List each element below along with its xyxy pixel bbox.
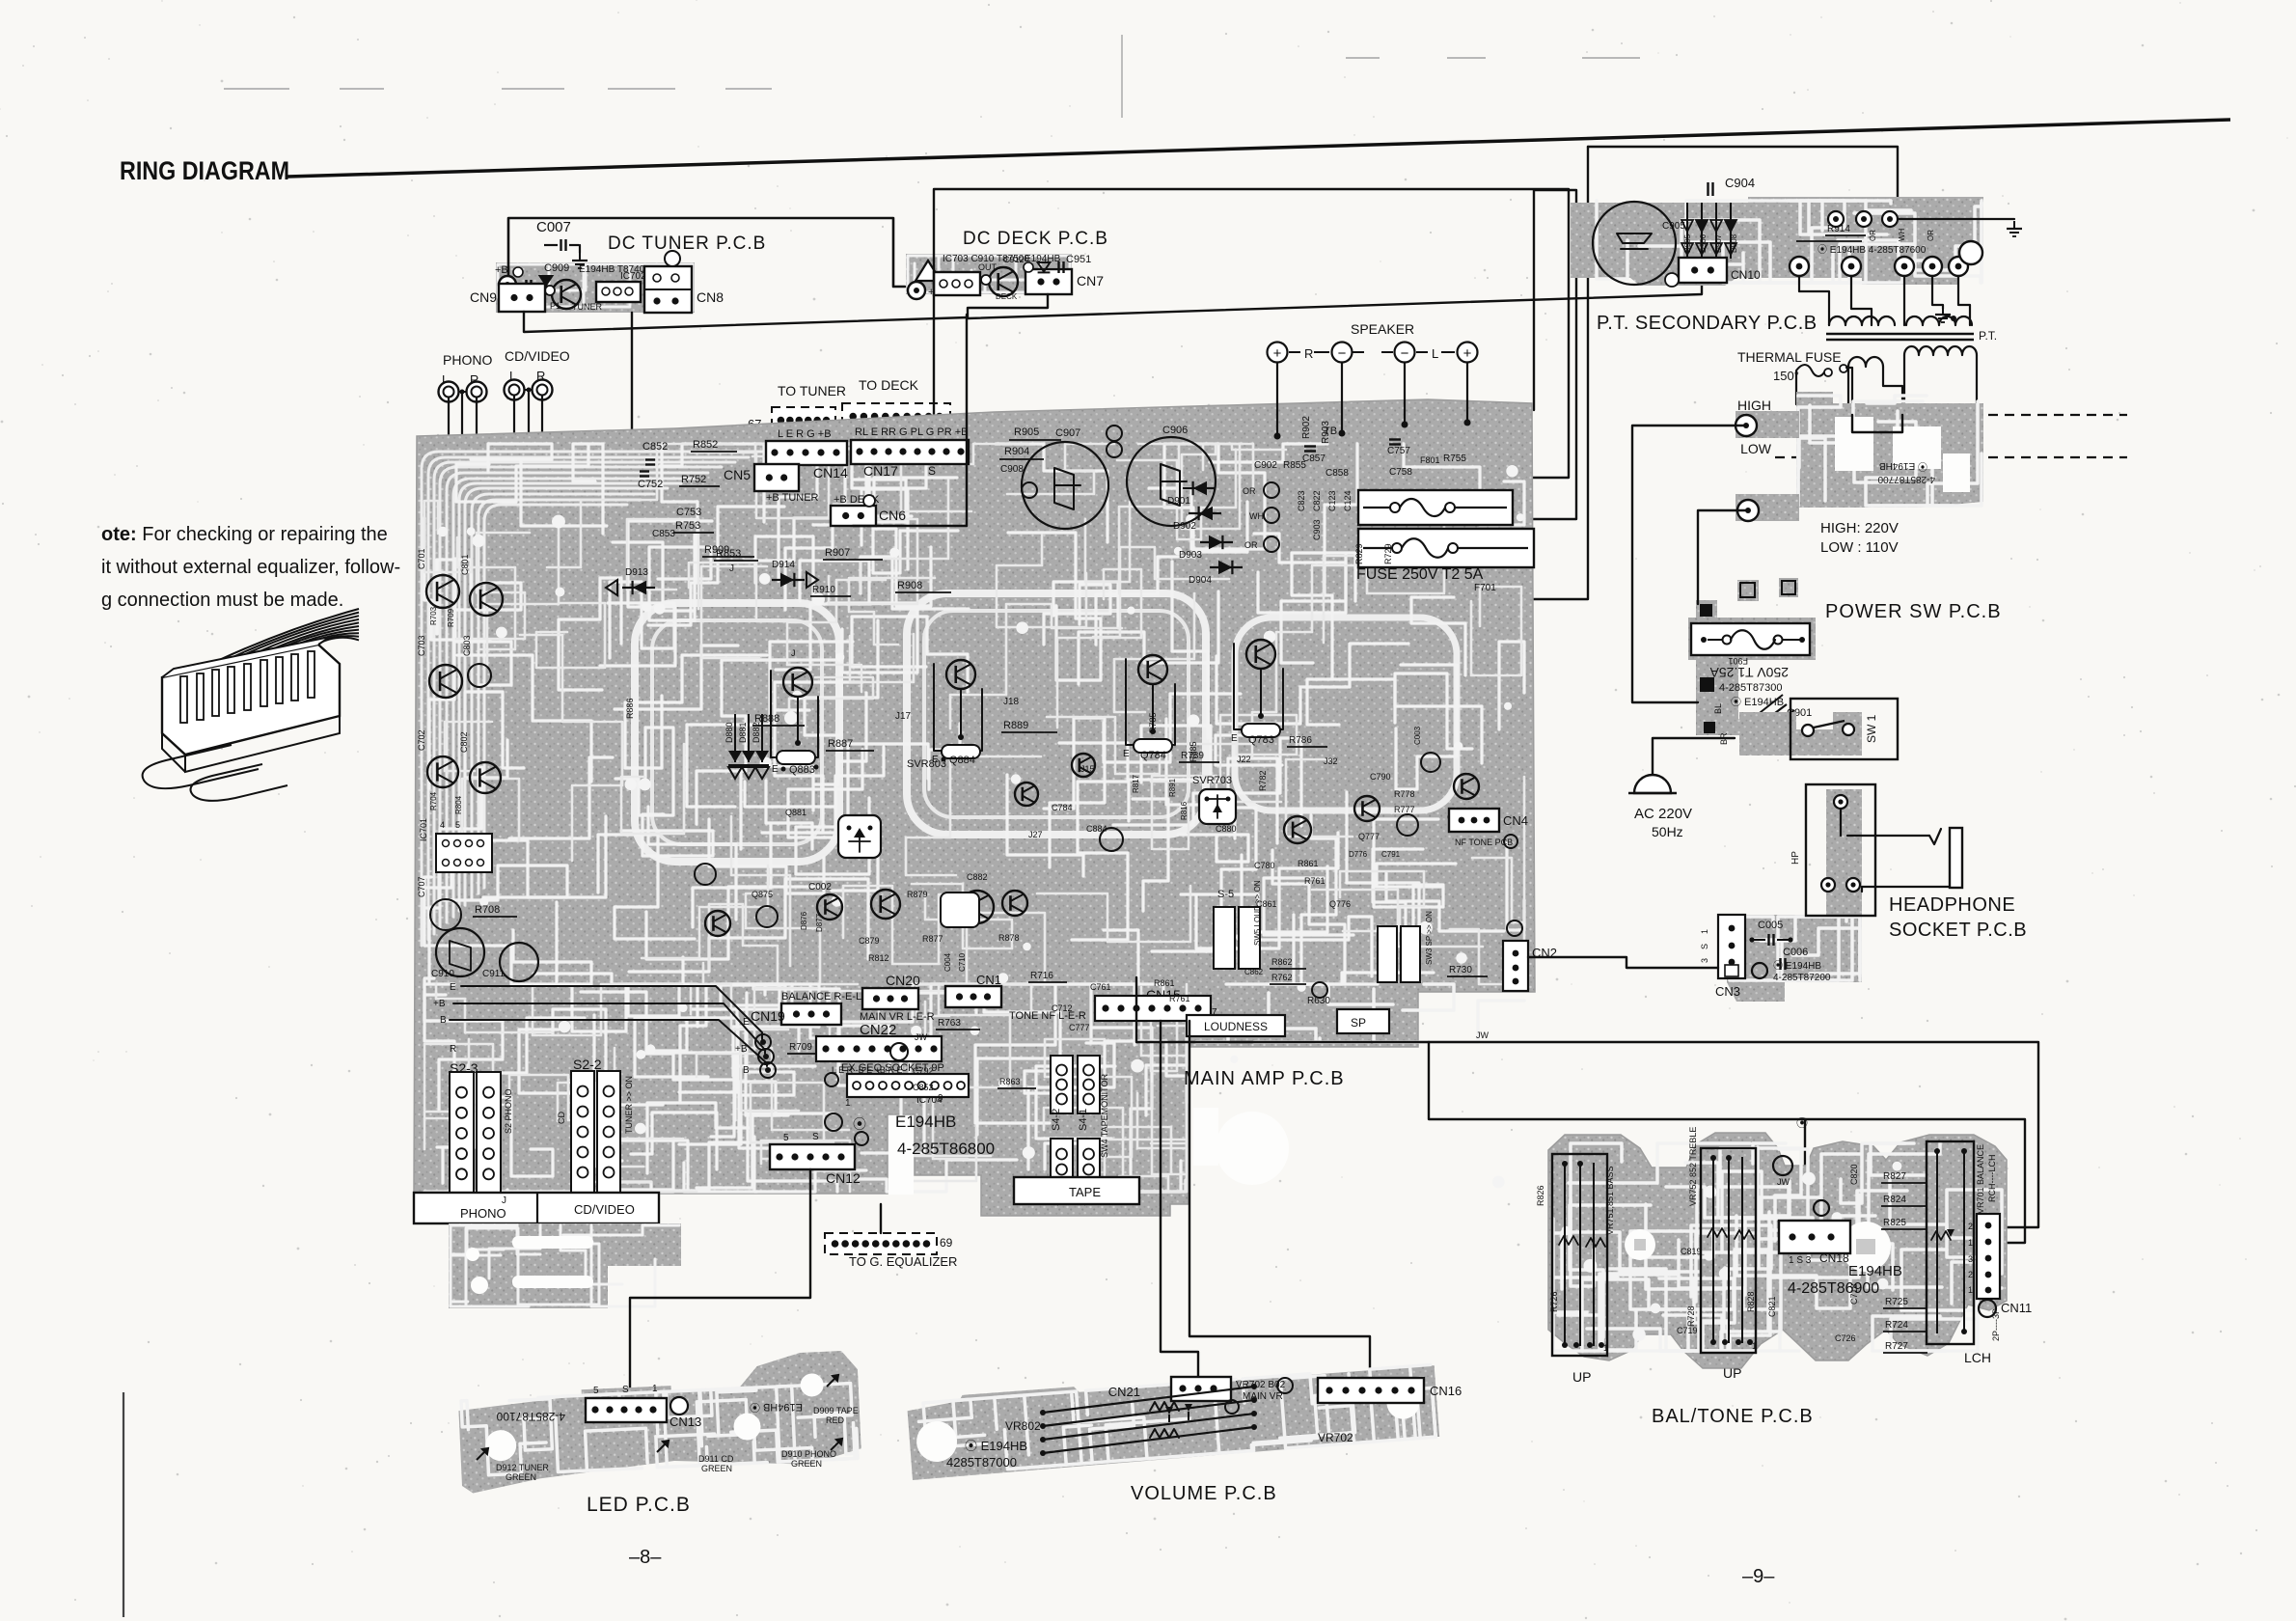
svg-text:SP: SP (1351, 1016, 1366, 1030)
svg-text:D881: D881 (738, 722, 748, 743)
svg-text:PHONO: PHONO (443, 352, 492, 368)
note text block (101, 524, 400, 611)
svg-text:C852: C852 (913, 1083, 934, 1092)
svg-text:HEADPHONE: HEADPHONE (1889, 894, 2015, 916)
svg-text:E194HB: E194HB (895, 1113, 956, 1131)
svg-text:D880: D880 (724, 722, 734, 743)
svg-text:C777: C777 (1069, 1023, 1090, 1032)
svg-text:–8–: –8– (629, 1547, 662, 1568)
svg-text:CN12: CN12 (826, 1170, 861, 1186)
svg-text:LOUDNESS: LOUDNESS (1204, 1020, 1268, 1033)
svg-text:OR: OR (1869, 230, 1877, 241)
S-5 boxes (1214, 907, 1235, 969)
switch SW1 (1739, 699, 1898, 759)
svg-text:D912 TUNER: D912 TUNER (496, 1463, 549, 1472)
svg-text:50Hz: 50Hz (1652, 824, 1683, 839)
svg-text:B: B (440, 1015, 447, 1026)
svg-text:POWER SW P.C.B: POWER SW P.C.B (1825, 601, 2002, 622)
svg-text:AC 220V: AC 220V (1634, 806, 1692, 822)
volume pot rails (1005, 1384, 1353, 1456)
svg-text:R786: R786 (1289, 735, 1312, 746)
svg-text:+B: +B (495, 264, 508, 276)
svg-text:1: 1 (1968, 1285, 1973, 1295)
svg-text:C124: C124 (1343, 490, 1353, 511)
capacitor C910 C911 (431, 928, 538, 1026)
svg-text:S2-2: S2-2 (573, 1057, 602, 1072)
svg-text:E194HB: E194HB (1025, 254, 1061, 264)
connector CN6 (831, 494, 906, 526)
svg-text:D905: D905 (1683, 234, 1692, 253)
svg-text:4-285T86900: 4-285T86900 (1788, 1280, 1879, 1297)
wire voltage selector to fuse (1632, 426, 1746, 702)
svg-text:S: S (1700, 944, 1709, 949)
svg-text:GREEN: GREEN (506, 1472, 536, 1482)
svg-text:+B: +B (433, 999, 446, 1009)
wire loop DC tuner (508, 218, 905, 287)
MAIN AMP P.C.B board (414, 399, 1535, 1216)
power fuse board (1688, 600, 1816, 745)
svg-text:RED: RED (826, 1415, 845, 1425)
svg-text:TAPE: TAPE (1069, 1185, 1101, 1199)
connector R709 row (787, 1036, 942, 1075)
connector CN9 (499, 284, 545, 312)
connector CN18 (1773, 1156, 1850, 1266)
svg-text:LOW : 110V: LOW : 110V (1820, 539, 1899, 556)
svg-text:F901: F901 (1728, 656, 1748, 666)
svg-text:TB: TB (1324, 426, 1337, 437)
svg-text:R: R (450, 1044, 456, 1055)
svg-text:2: 2 (1968, 1270, 1973, 1279)
svg-text:TUNER: TUNER (572, 302, 602, 312)
connector CN16 (1318, 1378, 1462, 1403)
wire loop to P.T. secondary (inner) (1503, 190, 1576, 519)
connector CN17 (851, 426, 969, 479)
svg-text:C853: C853 (652, 529, 675, 539)
svg-text:OR: OR (1244, 540, 1258, 550)
svg-text:TONE NF L-E-R: TONE NF L-E-R (1009, 1010, 1086, 1022)
svg-text:GREEN: GREEN (701, 1464, 732, 1473)
svg-text:VR752 852 TREBLE: VR752 852 TREBLE (1688, 1127, 1698, 1206)
svg-text:Q777: Q777 (1358, 832, 1380, 841)
svg-text:C884: C884 (1086, 824, 1107, 834)
svg-text:C908: C908 (1000, 464, 1024, 475)
svg-text:R762: R762 (1271, 973, 1293, 982)
svg-text:D876: D876 (800, 911, 808, 930)
wire DC deck feed down to CN6 (853, 315, 967, 526)
C901 capacitor (1756, 695, 1783, 716)
svg-text:R761: R761 (1304, 876, 1326, 886)
CN3 board (1700, 915, 1862, 999)
svg-text:4-285T87200: 4-285T87200 (1773, 973, 1831, 983)
svg-text:g connection must be made.: g connection must be made. (101, 590, 343, 611)
BAL/TONE P.C.B board (1548, 1133, 2007, 1368)
top pads on PT board (1828, 211, 1844, 227)
svg-text:+: + (1273, 345, 1282, 362)
CD/VIDEO jacks (505, 348, 570, 400)
svg-text:1: 1 (1752, 1341, 1757, 1351)
svg-text:C882: C882 (967, 872, 988, 882)
svg-text:4-285T86800: 4-285T86800 (897, 1140, 995, 1158)
wire main to CN11 (1136, 977, 2038, 1227)
IC702 box (596, 282, 641, 302)
svg-text:R905: R905 (1014, 426, 1039, 438)
left side transistors and caps (417, 548, 503, 872)
wire branch CN18 (1804, 1119, 1806, 1221)
svg-text:E: E (1123, 749, 1130, 759)
svg-text:CN10: CN10 (1731, 268, 1761, 282)
svg-text:LED P.C.B: LED P.C.B (587, 1494, 691, 1516)
LOUDNESS box (1187, 1015, 1285, 1036)
svg-text:D910 PHONO: D910 PHONO (781, 1449, 836, 1459)
S2-2 connector (504, 1057, 634, 1193)
svg-text:Q883: Q883 (789, 764, 815, 776)
ground wire right (1898, 218, 2014, 220)
svg-text:J18: J18 (1003, 697, 1020, 707)
terminal pads (1790, 257, 1809, 276)
svg-text:CN7: CN7 (1077, 273, 1104, 288)
transistor Q784 (1123, 655, 1219, 762)
svg-text:4-285T87100: 4-285T87100 (496, 1410, 565, 1423)
svg-text:R889: R889 (1003, 720, 1028, 731)
svg-text:OR: OR (1243, 486, 1256, 496)
svg-text:SW5 LOUD >> ON: SW5 LOUD >> ON (1253, 880, 1262, 946)
thermal fuse (1737, 349, 1852, 404)
svg-text:C005: C005 (1758, 920, 1783, 931)
svg-text:1: 1 (1700, 929, 1709, 934)
svg-text:HIGH: 220V: HIGH: 220V (1820, 520, 1899, 536)
svg-text:TO TUNER: TO TUNER (778, 383, 846, 398)
svg-text:R891: R891 (1168, 778, 1177, 797)
svg-text:C910: C910 (431, 969, 454, 979)
wire to volume CN16 (1189, 1021, 1370, 1378)
wires E +B B to pads (461, 986, 762, 1039)
svg-text:P.T. SECONDARY P.C.B: P.T. SECONDARY P.C.B (1597, 313, 1818, 334)
svg-text:VR802: VR802 (1005, 1419, 1041, 1433)
svg-text:C822: C822 (1312, 490, 1322, 511)
svg-text:SW3 SP >> ON: SW3 SP >> ON (1425, 911, 1434, 965)
svg-text:C862: C862 (1244, 968, 1264, 976)
svg-text:C802: C802 (459, 731, 469, 753)
SPEAKER terminals (1268, 321, 1478, 363)
svg-text:C719: C719 (1677, 1326, 1698, 1335)
svg-text:3: 3 (1700, 958, 1709, 963)
svg-text:SW 1: SW 1 (1865, 714, 1878, 743)
connector CN21 (1108, 1377, 1231, 1401)
svg-text:−: − (1401, 345, 1409, 362)
svg-text:D906: D906 (1699, 234, 1708, 253)
svg-text:S2 PHONO: S2 PHONO (504, 1088, 513, 1134)
svg-text:E: E (1231, 733, 1238, 744)
svg-text:R727: R727 (1885, 1341, 1908, 1352)
diodes D905-D908 (1681, 203, 1738, 259)
svg-text:E: E (743, 1017, 750, 1028)
svg-text:69: 69 (940, 1236, 953, 1250)
svg-text:D913: D913 (625, 567, 648, 578)
svg-text:FUSE 250V T2 5A: FUSE 250V T2 5A (1356, 566, 1484, 583)
transformer primary winding (1799, 276, 1997, 343)
svg-text:GREEN: GREEN (791, 1459, 822, 1469)
AC plug (1628, 775, 1692, 839)
connector CN7 (1025, 269, 1072, 294)
svg-text:CN14: CN14 (813, 465, 848, 481)
svg-text:UP: UP (1723, 1365, 1741, 1381)
wire CN8 down to board (632, 313, 760, 464)
diode D951 (540, 276, 553, 286)
svg-text:SPEAKER: SPEAKER (1351, 321, 1414, 337)
svg-text:5: 5 (593, 1386, 599, 1396)
svg-text:R782: R782 (1258, 770, 1268, 791)
svg-text:150°: 150° (1773, 369, 1799, 383)
connector CN15 (1090, 982, 1217, 1021)
svg-text:R863: R863 (999, 1077, 1021, 1086)
svg-text:+B TUNER: +B TUNER (766, 492, 819, 504)
svg-text:4-285T87300: 4-285T87300 (1719, 682, 1782, 694)
svg-text:Q784: Q784 (1140, 750, 1166, 761)
connector CN11 (1968, 1214, 2032, 1341)
transformer secondary winding (1848, 346, 1977, 404)
wire to volume CN21 (1161, 1021, 1198, 1377)
svg-text:R861: R861 (1298, 859, 1319, 868)
svg-text:HIGH: HIGH (1737, 398, 1771, 413)
svg-text:P.T.: P.T. (1979, 329, 1997, 343)
svg-text:D877: D877 (815, 913, 824, 932)
wire CN2 to CN3 (1528, 957, 1718, 968)
svg-text:R907: R907 (825, 547, 850, 559)
svg-text:R877: R877 (922, 934, 943, 944)
svg-text:R886: R886 (625, 698, 635, 719)
LED P.C.B board (456, 1350, 861, 1494)
svg-text:5: 5 (455, 820, 460, 830)
svg-text:IC702: IC702 (620, 271, 646, 282)
CN4 connector (1449, 809, 1499, 832)
svg-text:C701: C701 (417, 548, 426, 569)
wire AC to BR pad (1653, 738, 1735, 775)
connector CN19 BALANCE (751, 991, 861, 1025)
svg-text:R753: R753 (675, 520, 700, 532)
svg-text:E194HB: E194HB (1848, 1263, 1902, 1279)
svg-text:⦿ E194HB: ⦿ E194HB (1879, 460, 1927, 472)
svg-text:C879: C879 (859, 936, 880, 946)
svg-text:C710: C710 (958, 952, 967, 972)
LED board texts (477, 1375, 859, 1482)
multi-pin connector illustration (143, 609, 359, 801)
svg-text:1: 1 (1968, 1238, 1973, 1248)
svg-text:BL: BL (1713, 703, 1723, 714)
svg-text:R852: R852 (693, 439, 718, 451)
svg-text:R752: R752 (681, 474, 706, 485)
svg-text:R824: R824 (1883, 1195, 1906, 1205)
svg-text:−: − (1338, 345, 1347, 362)
svg-text:VR701 BALANCE: VR701 BALANCE (1976, 1144, 1985, 1214)
svg-text:THERMAL FUSE: THERMAL FUSE (1737, 349, 1842, 365)
connector 3pin (934, 272, 980, 295)
svg-text:WH: WH (1249, 511, 1264, 521)
svg-text:F701: F701 (1474, 583, 1496, 593)
svg-text:TO G. EQUALIZER: TO G. EQUALIZER (849, 1254, 957, 1269)
svg-text:R725: R725 (1885, 1297, 1908, 1307)
svg-text:Q875: Q875 (752, 890, 773, 899)
svg-text:4-285T87700: 4-285T87700 (1877, 474, 1935, 484)
connector CN20 (862, 973, 920, 1009)
TO TUNER connector 67 (748, 383, 846, 445)
svg-text:ote: For checking or repair: ote: For checking or repairing the (101, 524, 388, 545)
DC TUNER P.C.B board (496, 234, 766, 313)
svg-text:R909: R909 (704, 544, 729, 556)
svg-text:R862: R862 (1271, 957, 1293, 967)
svg-text:J: J (729, 563, 734, 574)
wire CN12 to CN13 (630, 1169, 810, 1397)
svg-text:1: 1 (845, 1098, 851, 1109)
svg-text:C003: C003 (1413, 726, 1422, 745)
svg-text:+: + (1463, 345, 1472, 362)
svg-text:CN16: CN16 (1430, 1384, 1462, 1398)
svg-text:RING DIAGRAM: RING DIAGRAM (120, 156, 289, 185)
svg-text:R763: R763 (938, 1018, 961, 1029)
diode down (1038, 262, 1051, 272)
svg-text:J: J (791, 648, 796, 658)
svg-text:R812: R812 (868, 953, 889, 963)
svg-text:S: S (812, 1132, 819, 1142)
svg-text:S4-1: S4-1 (1078, 1109, 1089, 1131)
potentiometer SVR703 (1199, 789, 1236, 824)
svg-text:E: E (450, 982, 456, 993)
svg-text:⦿ E194HB: ⦿ E194HB (1773, 960, 1821, 972)
svg-text:C801: C801 (460, 554, 470, 575)
connector CN14 (766, 428, 848, 481)
svg-text:R: R (1304, 346, 1313, 361)
lower gray block (449, 1223, 681, 1308)
page fold line (1121, 35, 1123, 118)
svg-text:C819: C819 (1681, 1247, 1702, 1256)
svg-text:SOCKET P.C.B: SOCKET P.C.B (1889, 920, 2027, 941)
svg-text:R879: R879 (907, 890, 928, 899)
svg-text:C852: C852 (642, 441, 668, 453)
svg-text:C951: C951 (1066, 254, 1091, 265)
svg-text:C911: C911 (482, 969, 506, 979)
svg-text:R703: R703 (429, 606, 438, 625)
svg-text:R785: R785 (1148, 712, 1158, 733)
svg-text:C780: C780 (1254, 861, 1275, 870)
svg-text:HP: HP (1790, 851, 1801, 865)
svg-text:R826: R826 (1536, 1185, 1545, 1206)
svg-text:CD: CD (557, 1112, 566, 1124)
diodes D901-D904 (1167, 481, 1279, 586)
svg-text:C906: C906 (1162, 425, 1188, 436)
SP box (1337, 1009, 1389, 1033)
capacitor C907 (1022, 442, 1108, 529)
svg-text:R730: R730 (1449, 965, 1472, 975)
svg-text:R910: R910 (812, 585, 835, 595)
svg-text:C904: C904 (1725, 176, 1755, 190)
svg-text:D907: D907 (1714, 234, 1723, 253)
svg-text:D776: D776 (1349, 850, 1368, 859)
svg-text:CN3: CN3 (1715, 984, 1740, 999)
svg-text:R887: R887 (828, 738, 853, 750)
svg-text:CN13: CN13 (670, 1415, 701, 1429)
svg-text:E: E (772, 764, 779, 775)
svg-text:VR751,851 BASS: VR751,851 BASS (1605, 1166, 1615, 1235)
svg-text:C757: C757 (1387, 446, 1410, 456)
svg-text:C703: C703 (417, 635, 426, 656)
small pads above power sw (1737, 580, 1759, 601)
svg-text:C726: C726 (1835, 1333, 1856, 1343)
svg-text:CN21: CN21 (1108, 1385, 1140, 1399)
svg-text:C790: C790 (1370, 772, 1391, 782)
svg-text:R904: R904 (1004, 446, 1029, 457)
connector CN10 (1679, 258, 1727, 283)
svg-text:C791: C791 (1381, 850, 1401, 859)
svg-text:R726: R726 (1549, 1291, 1559, 1312)
svg-text:C880: C880 (1216, 824, 1237, 834)
svg-text:DC TUNER P.C.B: DC TUNER P.C.B (608, 234, 766, 254)
svg-text:R827: R827 (1883, 1171, 1906, 1182)
svg-text:F801: F801 (1420, 455, 1440, 465)
svg-text:D914: D914 (772, 560, 795, 570)
svg-text:Q881: Q881 (785, 808, 806, 817)
svg-text:R816: R816 (1180, 801, 1189, 820)
HIGH / LOW selector (1736, 392, 2127, 556)
svg-text:C702: C702 (417, 729, 426, 751)
svg-text:SVR803: SVR803 (907, 758, 946, 770)
svg-text:DECK: DECK (996, 292, 1018, 301)
transistor DC deck (989, 267, 1018, 296)
+B terminal CN9 area (499, 276, 516, 293)
svg-text:R761: R761 (1169, 994, 1190, 1003)
svg-text:D911 CD: D911 CD (698, 1454, 734, 1464)
svg-text:C858: C858 (1326, 468, 1349, 479)
svg-text:RCH----LCH: RCH----LCH (1987, 1155, 1997, 1203)
svg-text:R777: R777 (1394, 805, 1415, 814)
svg-text:C909: C909 (544, 262, 569, 274)
svg-text:⦿ E194HB: ⦿ E194HB (1731, 696, 1784, 708)
svg-text:⦿ E194HB 4-285T87600: ⦿ E194HB 4-285T87600 (1818, 244, 1927, 256)
slider pot VR701 BALANCE (1927, 1141, 1997, 1365)
svg-text:C803: C803 (462, 635, 472, 656)
svg-text:9: 9 (938, 1093, 943, 1104)
wire to main fuse from top (1355, 147, 1588, 599)
svg-text:C820: C820 (1849, 1164, 1859, 1185)
svg-text:R716: R716 (1030, 971, 1053, 981)
svg-text:L E R G +B: L E R G +B (778, 428, 832, 440)
mid components cluster (695, 726, 1479, 963)
svg-text:CN11: CN11 (2001, 1301, 2032, 1315)
wire loop to P.T. secondary (outer) (934, 189, 1569, 478)
svg-text:C006: C006 (1783, 947, 1808, 958)
svg-text:J27: J27 (1028, 830, 1043, 839)
svg-text:MAIN AMP P.C.B: MAIN AMP P.C.B (1184, 1068, 1345, 1089)
jack wires into board (448, 397, 450, 482)
connector CN13 (586, 1384, 701, 1429)
svg-text:R704: R704 (429, 791, 438, 810)
svg-text:J: J (502, 1195, 506, 1206)
slider pot VR752/852 TREBLE (1686, 1127, 1757, 1381)
title WIRING DIAGRAM (cropped) (120, 120, 2230, 185)
svg-text:C821: C821 (1767, 1296, 1777, 1317)
svg-text:SW4 TAPEMONITOR: SW4 TAPEMONITOR (1100, 1073, 1109, 1158)
+B pad DC deck (908, 282, 925, 299)
svg-text:3: 3 (1968, 1254, 1973, 1264)
svg-text:R708: R708 (475, 904, 500, 916)
wire branch to CN18 (1429, 1042, 2025, 1243)
svg-text:D901: D901 (1167, 496, 1190, 507)
PHONO CD/VIDEO band (414, 1193, 659, 1223)
svg-text:J32: J32 (1324, 756, 1338, 766)
svg-text:CN19: CN19 (751, 1008, 785, 1024)
svg-text:D908: D908 (1730, 234, 1738, 253)
svg-text:JW: JW (1476, 1030, 1490, 1040)
svg-text:4285T87000: 4285T87000 (946, 1455, 1017, 1470)
svg-text:R861: R861 (1154, 978, 1175, 988)
